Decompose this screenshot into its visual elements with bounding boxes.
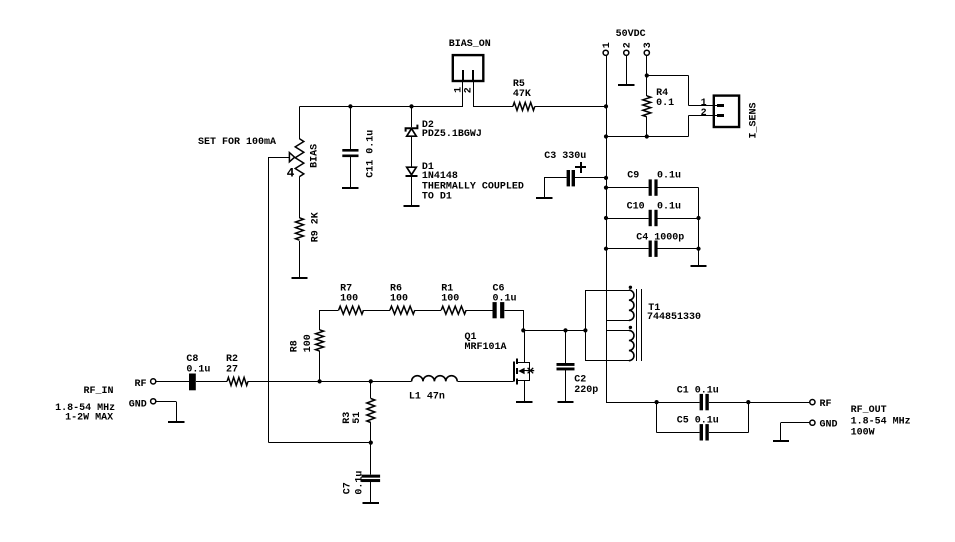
- svg-text:C4 1000p: C4 1000p: [636, 232, 684, 243]
- svg-text:0.1u: 0.1u: [354, 471, 365, 495]
- label C5 0.1u: [677, 416, 719, 427]
- wire transformer lower bottom: [585, 360, 629, 362]
- pin GND of RF_IN: [151, 399, 156, 404]
- transistor Q1 gate bar: [513, 362, 515, 382]
- wire C3 right lead: [575, 177, 606, 179]
- wire bias line right segment (to R5): [473, 106, 513, 108]
- label L1 47n: [409, 392, 445, 403]
- label C8 0.1u: [186, 354, 210, 376]
- svg-text:100W: 100W: [851, 427, 875, 438]
- wire output row: [606, 402, 700, 404]
- wire R8 bottom: [319, 351, 321, 381]
- junction D2 top: [409, 104, 413, 108]
- wire C11 top: [350, 106, 352, 149]
- wire C9 right: [658, 187, 699, 189]
- diode D1: [406, 167, 418, 176]
- transistor Q1 source link: [518, 380, 530, 382]
- svg-text:100: 100: [303, 334, 314, 352]
- capacitor C8: [189, 374, 196, 391]
- wire L1 to gate: [457, 381, 513, 383]
- svg-text:0.1: 0.1: [656, 98, 674, 109]
- pin 1 of BIAS_ON: [462, 70, 464, 81]
- svg-text:SET FOR 100mA: SET FOR 100mA: [198, 137, 276, 148]
- wire to I_SENS pin 2: [688, 115, 718, 117]
- svg-text:GND: GND: [820, 419, 838, 430]
- resistor R8 top lead: [319, 310, 321, 330]
- svg-text:PDZ5.1BGWJ: PDZ5.1BGWJ: [422, 129, 482, 140]
- svg-text:C11 0.1u: C11 0.1u: [366, 130, 377, 178]
- wire Q1 drain: [524, 330, 526, 362]
- label C9 0.1u: [627, 171, 681, 182]
- wire transformer upper top: [585, 290, 629, 292]
- junction C2 top: [563, 328, 567, 332]
- pin RF of RF_OUT: [810, 400, 815, 405]
- wire 50V rail: [606, 55, 608, 402]
- label C1 0.1u: [677, 385, 719, 396]
- pin 2 of 50VDC: [624, 50, 629, 55]
- svg-text:C3 330u: C3 330u: [544, 151, 586, 162]
- svg-text:C10: C10: [627, 201, 645, 212]
- note RF_IN freq: [55, 403, 115, 414]
- wire C2 bottom: [565, 370, 567, 402]
- svg-text:0.1u: 0.1u: [657, 171, 681, 182]
- svg-text:BIAS: BIAS: [310, 144, 321, 168]
- wire C5 left drop: [657, 402, 700, 432]
- ground below C11: [342, 187, 358, 189]
- transistor Q1 body link: [529, 362, 531, 381]
- label GND of RF_IN: [129, 399, 147, 410]
- resistor R7: [339, 306, 364, 314]
- wire C8 to R2: [196, 381, 227, 383]
- svg-text:1.8-54 MHz: 1.8-54 MHz: [851, 417, 911, 428]
- wire R2 to L1: [248, 381, 412, 383]
- resistor R5: [513, 102, 535, 110]
- note RF_IN power: [65, 413, 113, 424]
- transistor Q1 channel dashes: [516, 359, 518, 385]
- note RF_OUT freq: [851, 417, 911, 428]
- pin number 4 of potentiometer: [287, 165, 295, 180]
- wire D2 to D1: [411, 136, 413, 167]
- pin number 1 of I_SENS: [701, 98, 707, 109]
- junction R4 top: [645, 73, 649, 77]
- wire C2 top: [565, 330, 567, 363]
- pin number 2 of I_SENS: [701, 108, 707, 119]
- svg-text:2: 2: [623, 42, 634, 48]
- wire R3 to C7: [370, 443, 372, 475]
- wire pin 2 to ground: [626, 55, 628, 84]
- label D2: [422, 120, 482, 140]
- resistor R1: [441, 306, 466, 314]
- wire BIAS_ON pin 1 down: [462, 81, 464, 106]
- wire pin 3 down: [646, 55, 648, 96]
- label C2 220p: [574, 375, 598, 397]
- wire C6 right: [505, 310, 524, 330]
- resistor R9: [296, 218, 304, 240]
- label RF of RF_IN: [135, 379, 147, 390]
- svg-text:R2: R2: [226, 354, 238, 365]
- junction C3: [604, 176, 608, 180]
- wire C4 left: [606, 248, 649, 250]
- junction C10 left: [604, 216, 608, 220]
- wire R7 left corner: [320, 310, 339, 312]
- ground below C4 bank: [690, 265, 706, 267]
- wire RF_IN to C8: [156, 381, 189, 383]
- svg-text:0.1u: 0.1u: [657, 201, 681, 212]
- pin RF of RF_IN: [151, 379, 156, 384]
- label C10 0.1u: [627, 201, 681, 212]
- wire R5 to 50V rail: [535, 106, 606, 108]
- svg-text:0.1u: 0.1u: [493, 294, 517, 305]
- ground below D1: [403, 205, 419, 207]
- wire to I_SENS pin 1: [688, 105, 718, 107]
- transistor Q1 body arrow: [518, 368, 529, 374]
- label C4 1000p: [636, 232, 684, 243]
- label R7: [340, 284, 358, 305]
- svg-text:2: 2: [464, 87, 475, 93]
- wire drain row: [523, 330, 585, 332]
- pin 1 of I_SENS: [717, 104, 724, 107]
- wire RF_IN gnd: [156, 401, 177, 422]
- wire R1-C6: [466, 310, 492, 312]
- wire RF_OUT gnd: [781, 423, 810, 442]
- svg-text:3: 3: [643, 42, 654, 48]
- wire R9 to ground: [299, 241, 301, 279]
- wire transformer upper bottom: [606, 320, 629, 322]
- wire R3 bottom: [370, 423, 372, 443]
- capacitor C1: [700, 394, 709, 410]
- wire C9 left: [606, 187, 649, 189]
- svg-text:50VDC: 50VDC: [616, 29, 646, 40]
- wire transformer left vertical: [585, 290, 587, 361]
- zener diode D2: [406, 125, 418, 137]
- svg-text:0.1u: 0.1u: [186, 365, 210, 376]
- svg-text:RF_IN: RF_IN: [84, 386, 114, 397]
- wire pot to R9: [299, 177, 301, 218]
- pin number 1 of BIAS_ON: [453, 87, 464, 93]
- wire I_SENS pin 1 drop: [688, 76, 690, 106]
- label BIAS_ON: [449, 39, 491, 50]
- wire R6-R1: [415, 310, 441, 312]
- capacitor C11: [342, 149, 358, 157]
- inductor L1: [412, 376, 458, 382]
- capacitor C5: [700, 424, 709, 440]
- svg-text:100: 100: [340, 294, 358, 305]
- note RF_IN: [84, 386, 114, 397]
- svg-text:100: 100: [390, 294, 408, 305]
- svg-text:51: 51: [352, 412, 363, 424]
- capacitor C10: [649, 210, 658, 226]
- wire R3 top: [370, 381, 372, 398]
- pin number 1 of 50VDC: [602, 42, 613, 48]
- pin 3 of 50VDC: [644, 50, 649, 55]
- junction C9 left: [604, 186, 608, 190]
- label R1: [441, 284, 459, 305]
- label R3 51: [342, 412, 363, 424]
- label C6 0.1u: [493, 284, 517, 305]
- note SET FOR 100mA: [198, 137, 276, 148]
- label C7 0.1u: [343, 471, 366, 495]
- svg-text:27: 27: [226, 365, 238, 376]
- svg-text:RF: RF: [820, 399, 832, 410]
- svg-text:C1 0.1u: C1 0.1u: [677, 385, 719, 396]
- label C3 330u: [544, 151, 586, 162]
- label GND of RF_OUT: [820, 419, 838, 430]
- pin number 2 of 50VDC: [623, 42, 634, 48]
- ground below Q1: [516, 401, 532, 403]
- ground below pin 2: [618, 84, 634, 86]
- svg-text:TO D1: TO D1: [422, 192, 452, 203]
- plus mark of C3: [575, 162, 586, 173]
- svg-text:BIAS_ON: BIAS_ON: [449, 39, 491, 50]
- wire C11 bottom: [350, 156, 352, 188]
- transistor Q1 drain link: [518, 362, 530, 364]
- wire wiper down: [268, 157, 270, 442]
- svg-text:C7: C7: [343, 482, 354, 494]
- potentiometer RV BIAS body: [295, 139, 304, 177]
- wire D1 to ground: [411, 176, 413, 206]
- transformer T1 upper winding: [629, 290, 634, 320]
- svg-text:C8: C8: [186, 354, 198, 365]
- label BIAS: [310, 144, 321, 168]
- wire bias line to potentiometer: [299, 106, 301, 138]
- svg-text:1: 1: [602, 42, 613, 48]
- wire R7-R6: [364, 310, 390, 312]
- junction C5 left: [655, 400, 659, 404]
- junction C10 right: [696, 216, 700, 220]
- connector J BIAS_ON box: [453, 55, 484, 81]
- svg-text:RF_OUT: RF_OUT: [851, 405, 887, 416]
- svg-text:RF: RF: [135, 379, 147, 390]
- resistor R8: [316, 330, 324, 351]
- label C11 0.1u: [366, 130, 377, 178]
- svg-text:4: 4: [287, 165, 295, 180]
- junction drain node: [521, 328, 525, 332]
- label R6: [390, 284, 408, 305]
- phase dot upper winding: [629, 286, 632, 289]
- label R8 100: [290, 334, 315, 352]
- label 50VDC: [616, 29, 646, 40]
- label R5: [513, 79, 531, 100]
- pin number 2 of BIAS_ON: [464, 87, 475, 93]
- ground below R9: [291, 277, 307, 279]
- junction rail bias: [604, 104, 608, 108]
- svg-text:2: 2: [701, 108, 707, 119]
- svg-text:C5 0.1u: C5 0.1u: [677, 416, 719, 427]
- wire wiper bottom to R3: [268, 442, 370, 444]
- note RF_OUT power: [851, 427, 875, 438]
- svg-text:R9 2K: R9 2K: [311, 212, 322, 242]
- wire I_SENS pin 2 rise: [688, 116, 690, 137]
- svg-text:47K: 47K: [513, 89, 531, 100]
- junction R4 bottom: [645, 134, 649, 138]
- label RF of RF_OUT: [820, 399, 832, 410]
- junction R3 bottom: [369, 441, 373, 445]
- svg-text:C9: C9: [627, 171, 639, 182]
- label Q1: [465, 332, 507, 353]
- svg-text:I_SENS: I_SENS: [749, 102, 760, 138]
- capacitor C7: [362, 475, 381, 482]
- pin number 3 of 50VDC: [643, 42, 654, 48]
- svg-text:R8: R8: [290, 340, 301, 352]
- svg-text:GND: GND: [129, 399, 147, 410]
- wire decoupling right vertical: [698, 188, 700, 267]
- svg-text:744851330: 744851330: [647, 312, 701, 323]
- wire R4 bottom line: [606, 136, 688, 138]
- transformer T1 lower winding: [629, 330, 634, 360]
- pin 2 of BIAS_ON: [472, 70, 474, 81]
- ground below RF_OUT: [773, 440, 789, 442]
- wire C3 to ground: [544, 178, 546, 198]
- label D1: [422, 162, 524, 203]
- wire R4 bottom: [646, 117, 648, 137]
- resistor R6: [390, 306, 415, 314]
- wire C1 right: [709, 402, 810, 404]
- capacitor C9: [649, 179, 658, 195]
- capacitor C2: [557, 363, 575, 370]
- ground below C2: [557, 401, 573, 403]
- pin GND of RF_OUT: [810, 420, 815, 425]
- wire C4 right: [658, 248, 699, 250]
- asterisk mark of Q1: [527, 368, 535, 373]
- junction R3 top: [369, 379, 373, 383]
- junction rail R4 line: [604, 134, 608, 138]
- wire bias line left segment: [300, 106, 463, 108]
- svg-text:100: 100: [441, 294, 459, 305]
- label R4: [656, 88, 674, 109]
- capacitor C4: [649, 241, 658, 257]
- wire D2 top: [411, 106, 413, 127]
- label I_SENS: [749, 102, 760, 138]
- junction C11 top: [348, 104, 352, 108]
- ground below C3: [536, 197, 552, 199]
- resistor R2: [227, 377, 248, 385]
- potentiometer wiper arrow: [289, 153, 294, 162]
- wire C7 bottom: [370, 482, 372, 503]
- pin 2 of I_SENS: [717, 114, 724, 117]
- transformer T1 core bars: [637, 289, 642, 361]
- wire transformer lower top: [606, 330, 629, 332]
- wire wiper: [268, 157, 289, 159]
- junction R8 bottom: [318, 379, 322, 383]
- pin 1 of 50VDC: [603, 50, 608, 55]
- ground below RF_IN: [168, 421, 184, 423]
- wire C10 right: [658, 218, 699, 220]
- note RF_OUT: [851, 405, 887, 416]
- wire C3 left lead: [544, 177, 566, 179]
- junction C4 left: [604, 247, 608, 251]
- svg-text:C2: C2: [574, 375, 586, 386]
- svg-text:L1 47n: L1 47n: [409, 392, 445, 403]
- capacitor C6: [493, 302, 505, 318]
- svg-text:220p: 220p: [574, 385, 598, 396]
- capacitor C3 plates: [567, 170, 575, 186]
- junction C5 right: [746, 400, 750, 404]
- label T1: [647, 303, 701, 323]
- ground below C7: [363, 502, 379, 504]
- junction C4 right: [696, 247, 700, 251]
- label R2 27: [226, 354, 238, 376]
- phase dot lower winding: [629, 326, 632, 329]
- wire C10 left: [606, 218, 649, 220]
- resistor R3: [367, 399, 375, 423]
- label R9 2K: [311, 212, 322, 242]
- svg-text:MRF101A: MRF101A: [465, 342, 507, 353]
- connector J I_SENS box: [714, 96, 739, 127]
- wire Q1 source: [524, 381, 526, 402]
- wire C5 right rise: [709, 402, 749, 432]
- wire BIAS_ON pin 2 down: [473, 81, 475, 106]
- svg-text:1-2W MAX: 1-2W MAX: [65, 413, 113, 424]
- junction transformer left: [583, 328, 587, 332]
- resistor R4: [643, 96, 651, 117]
- wire R4 top branch right: [647, 75, 689, 77]
